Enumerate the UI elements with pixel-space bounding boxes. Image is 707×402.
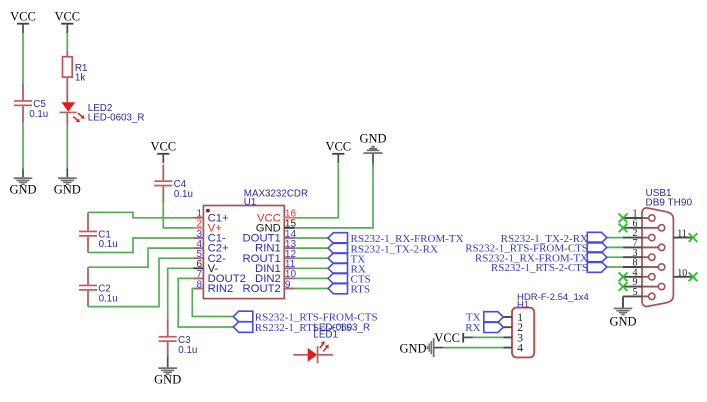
U1 right pin 15 (GND) xyxy=(284,227,294,229)
USB1 pin 5 xyxy=(623,295,643,297)
svg-text:0.1u: 0.1u xyxy=(99,239,118,250)
svg-text:4: 4 xyxy=(517,343,523,355)
LED LED2 xyxy=(62,102,76,111)
capacitor C4 xyxy=(162,165,164,181)
U1 right pin 10 (DIN2) xyxy=(284,277,294,279)
U1 left pin 4 (C2+) xyxy=(193,247,203,249)
capacitor C3 xyxy=(167,318,169,336)
net flag TX xyxy=(328,253,348,264)
U1 right pin 11 (DIN1) xyxy=(284,267,294,269)
wire xyxy=(295,247,329,249)
svg-text:0.1u: 0.1u xyxy=(174,189,193,200)
net flag RTS xyxy=(328,283,348,294)
ground GND (below LED2) xyxy=(66,169,68,178)
svg-text:GND: GND xyxy=(9,183,36,197)
ground GND (USB1 pin 5) xyxy=(622,296,624,307)
wire pin 8 to net RS232-1_RTS-FROM-CTS xyxy=(192,289,233,317)
svg-text:VCC: VCC xyxy=(325,140,351,154)
net flag RS232-1_RTS-2-CTS xyxy=(233,322,253,333)
U1 right pin 9 (ROUT2) xyxy=(284,288,294,290)
wire xyxy=(295,277,329,279)
net flag RS232-1_TX-2-RX xyxy=(328,243,348,254)
no-connect X xyxy=(619,272,628,281)
U1 left pin 1 (C1+) xyxy=(193,217,203,219)
USB1 pin 4 xyxy=(623,276,643,278)
wire pin 6 to C3 xyxy=(168,268,194,318)
capacitor C5 xyxy=(22,83,24,100)
U1 left pin 8 (RIN2) xyxy=(193,288,203,290)
USB1 pin 11 xyxy=(673,237,691,239)
U1 left pin 2 (V+) xyxy=(193,227,203,229)
net flag RX xyxy=(328,263,348,274)
USB1 pin 9 xyxy=(623,286,643,288)
no-connect X xyxy=(619,214,628,223)
svg-text:VCC: VCC xyxy=(10,9,36,23)
wire C1 top to pin 1 xyxy=(88,212,193,217)
svg-text:H1: H1 xyxy=(517,299,529,310)
LED LED1 xyxy=(293,354,307,356)
pin 1 marker dot xyxy=(206,209,210,213)
no-connect X xyxy=(619,223,628,232)
svg-text:GND: GND xyxy=(609,314,636,328)
svg-text:U1: U1 xyxy=(244,197,257,208)
svg-text:GND: GND xyxy=(359,132,386,146)
U1 right pin 14 (DOUT1) xyxy=(284,237,294,239)
svg-text:DB9 TH90: DB9 TH90 xyxy=(646,198,693,209)
net flag RS232-1_RX-FROM-TX xyxy=(328,233,348,244)
net flag RS232-1_TX-2-RX xyxy=(587,232,607,243)
svg-text:RS232-1_RTS-2-CTS: RS232-1_RTS-2-CTS xyxy=(491,262,588,274)
wire xyxy=(66,33,68,51)
U1 left pin 5 (C2-) xyxy=(193,257,203,259)
svg-text:VCC: VCC xyxy=(434,331,460,345)
svg-text:RIN2: RIN2 xyxy=(208,283,234,295)
svg-text:ROUT2: ROUT2 xyxy=(243,283,281,295)
wire xyxy=(607,246,623,248)
USB1 pin 3 xyxy=(623,256,643,258)
svg-text:VCC: VCC xyxy=(150,140,176,154)
op-amp U1 MAX3232CDR body xyxy=(203,206,284,299)
wire xyxy=(22,33,24,83)
USB1 pin 8 xyxy=(623,266,643,268)
svg-text:LED-0603_R: LED-0603_R xyxy=(88,112,145,123)
H1 pin 2 xyxy=(503,326,512,328)
net flag RS232-1_RTS-FROM-CTS xyxy=(233,311,253,322)
wire xyxy=(295,267,329,269)
net flag TX (to H1 pin 1) xyxy=(484,312,504,323)
svg-text:GND: GND xyxy=(400,342,427,356)
net flag RS232-1_RTS-FROM-CTS xyxy=(587,242,607,253)
H1 pin 3 xyxy=(503,336,512,338)
wire xyxy=(66,125,68,168)
net flag RS232-1_RX-FROM-TX xyxy=(587,252,607,263)
USB1 pin 1 xyxy=(623,217,643,219)
wire xyxy=(295,257,329,259)
U1 right pin 12 (ROUT1) xyxy=(284,257,294,259)
capacitor C1 xyxy=(87,212,89,230)
wire xyxy=(607,256,623,258)
svg-text:LED1: LED1 xyxy=(313,329,338,340)
USB1 pin 2 xyxy=(623,237,643,239)
svg-text:1k: 1k xyxy=(75,72,85,83)
connector H1 HDR-F-2.54_1x4 body xyxy=(512,308,534,358)
svg-text:8: 8 xyxy=(196,279,202,290)
capacitor C2 xyxy=(87,267,89,284)
svg-text:RX: RX xyxy=(465,322,480,334)
wire xyxy=(22,123,24,169)
svg-text:0.1u: 0.1u xyxy=(99,293,118,304)
U1 left pin 7 (DOUT2) xyxy=(193,277,203,279)
net flag RS232-1_RTS-2-CTS xyxy=(587,262,607,273)
USB1 pin 7 xyxy=(623,246,643,248)
svg-text:GND: GND xyxy=(154,373,181,387)
svg-text:VCC: VCC xyxy=(54,9,80,23)
svg-text:RTS: RTS xyxy=(351,284,371,296)
wire xyxy=(295,237,329,239)
svg-text:5: 5 xyxy=(633,287,638,298)
USB1 pin 10 xyxy=(673,276,691,278)
wire pin 16 to VCC xyxy=(295,164,339,218)
svg-text:10: 10 xyxy=(677,268,687,279)
svg-text:11: 11 xyxy=(677,229,687,240)
wire net VCC to pin 2 xyxy=(163,203,193,228)
ground GND (below C3) xyxy=(167,357,169,368)
wire C2 top to pin 4 xyxy=(88,248,193,267)
no-connect X xyxy=(619,282,628,291)
wire xyxy=(607,266,623,268)
resistor R1 xyxy=(66,51,68,57)
wire xyxy=(443,347,503,349)
H1 pin 1 xyxy=(503,316,512,318)
no-connect X pin 10 xyxy=(689,272,698,281)
wire pin 7 to net RS232-1_RTS-2-CTS xyxy=(178,278,233,327)
wire C2 bottom to pin 5 xyxy=(88,258,193,306)
net flag RX (to H1 pin 2) xyxy=(484,322,504,333)
USB1 pin 6 xyxy=(623,227,643,229)
svg-text:9: 9 xyxy=(285,279,291,290)
wire pin 15 to GND xyxy=(295,164,374,228)
U1 left pin 6 (V-) xyxy=(193,267,203,269)
H1 pin 4 xyxy=(503,347,512,349)
U1 left pin 3 (C1-) xyxy=(193,237,203,239)
wire C1 bottom to pin 3 xyxy=(88,238,193,253)
svg-text:GND: GND xyxy=(54,183,81,197)
ground GND (below C5) xyxy=(22,169,24,178)
no-connect X pin 11 xyxy=(689,233,698,242)
ground GND (above U1) xyxy=(363,152,382,154)
wire xyxy=(607,237,623,239)
wire xyxy=(295,288,329,290)
wire xyxy=(473,336,503,338)
U1 right pin 13 (RIN1) xyxy=(284,247,294,249)
svg-text:0.1u: 0.1u xyxy=(29,109,48,120)
svg-text:0.1u: 0.1u xyxy=(178,345,197,356)
net flag CTS xyxy=(328,273,348,284)
U1 right pin 16 (VCC) xyxy=(284,217,294,219)
